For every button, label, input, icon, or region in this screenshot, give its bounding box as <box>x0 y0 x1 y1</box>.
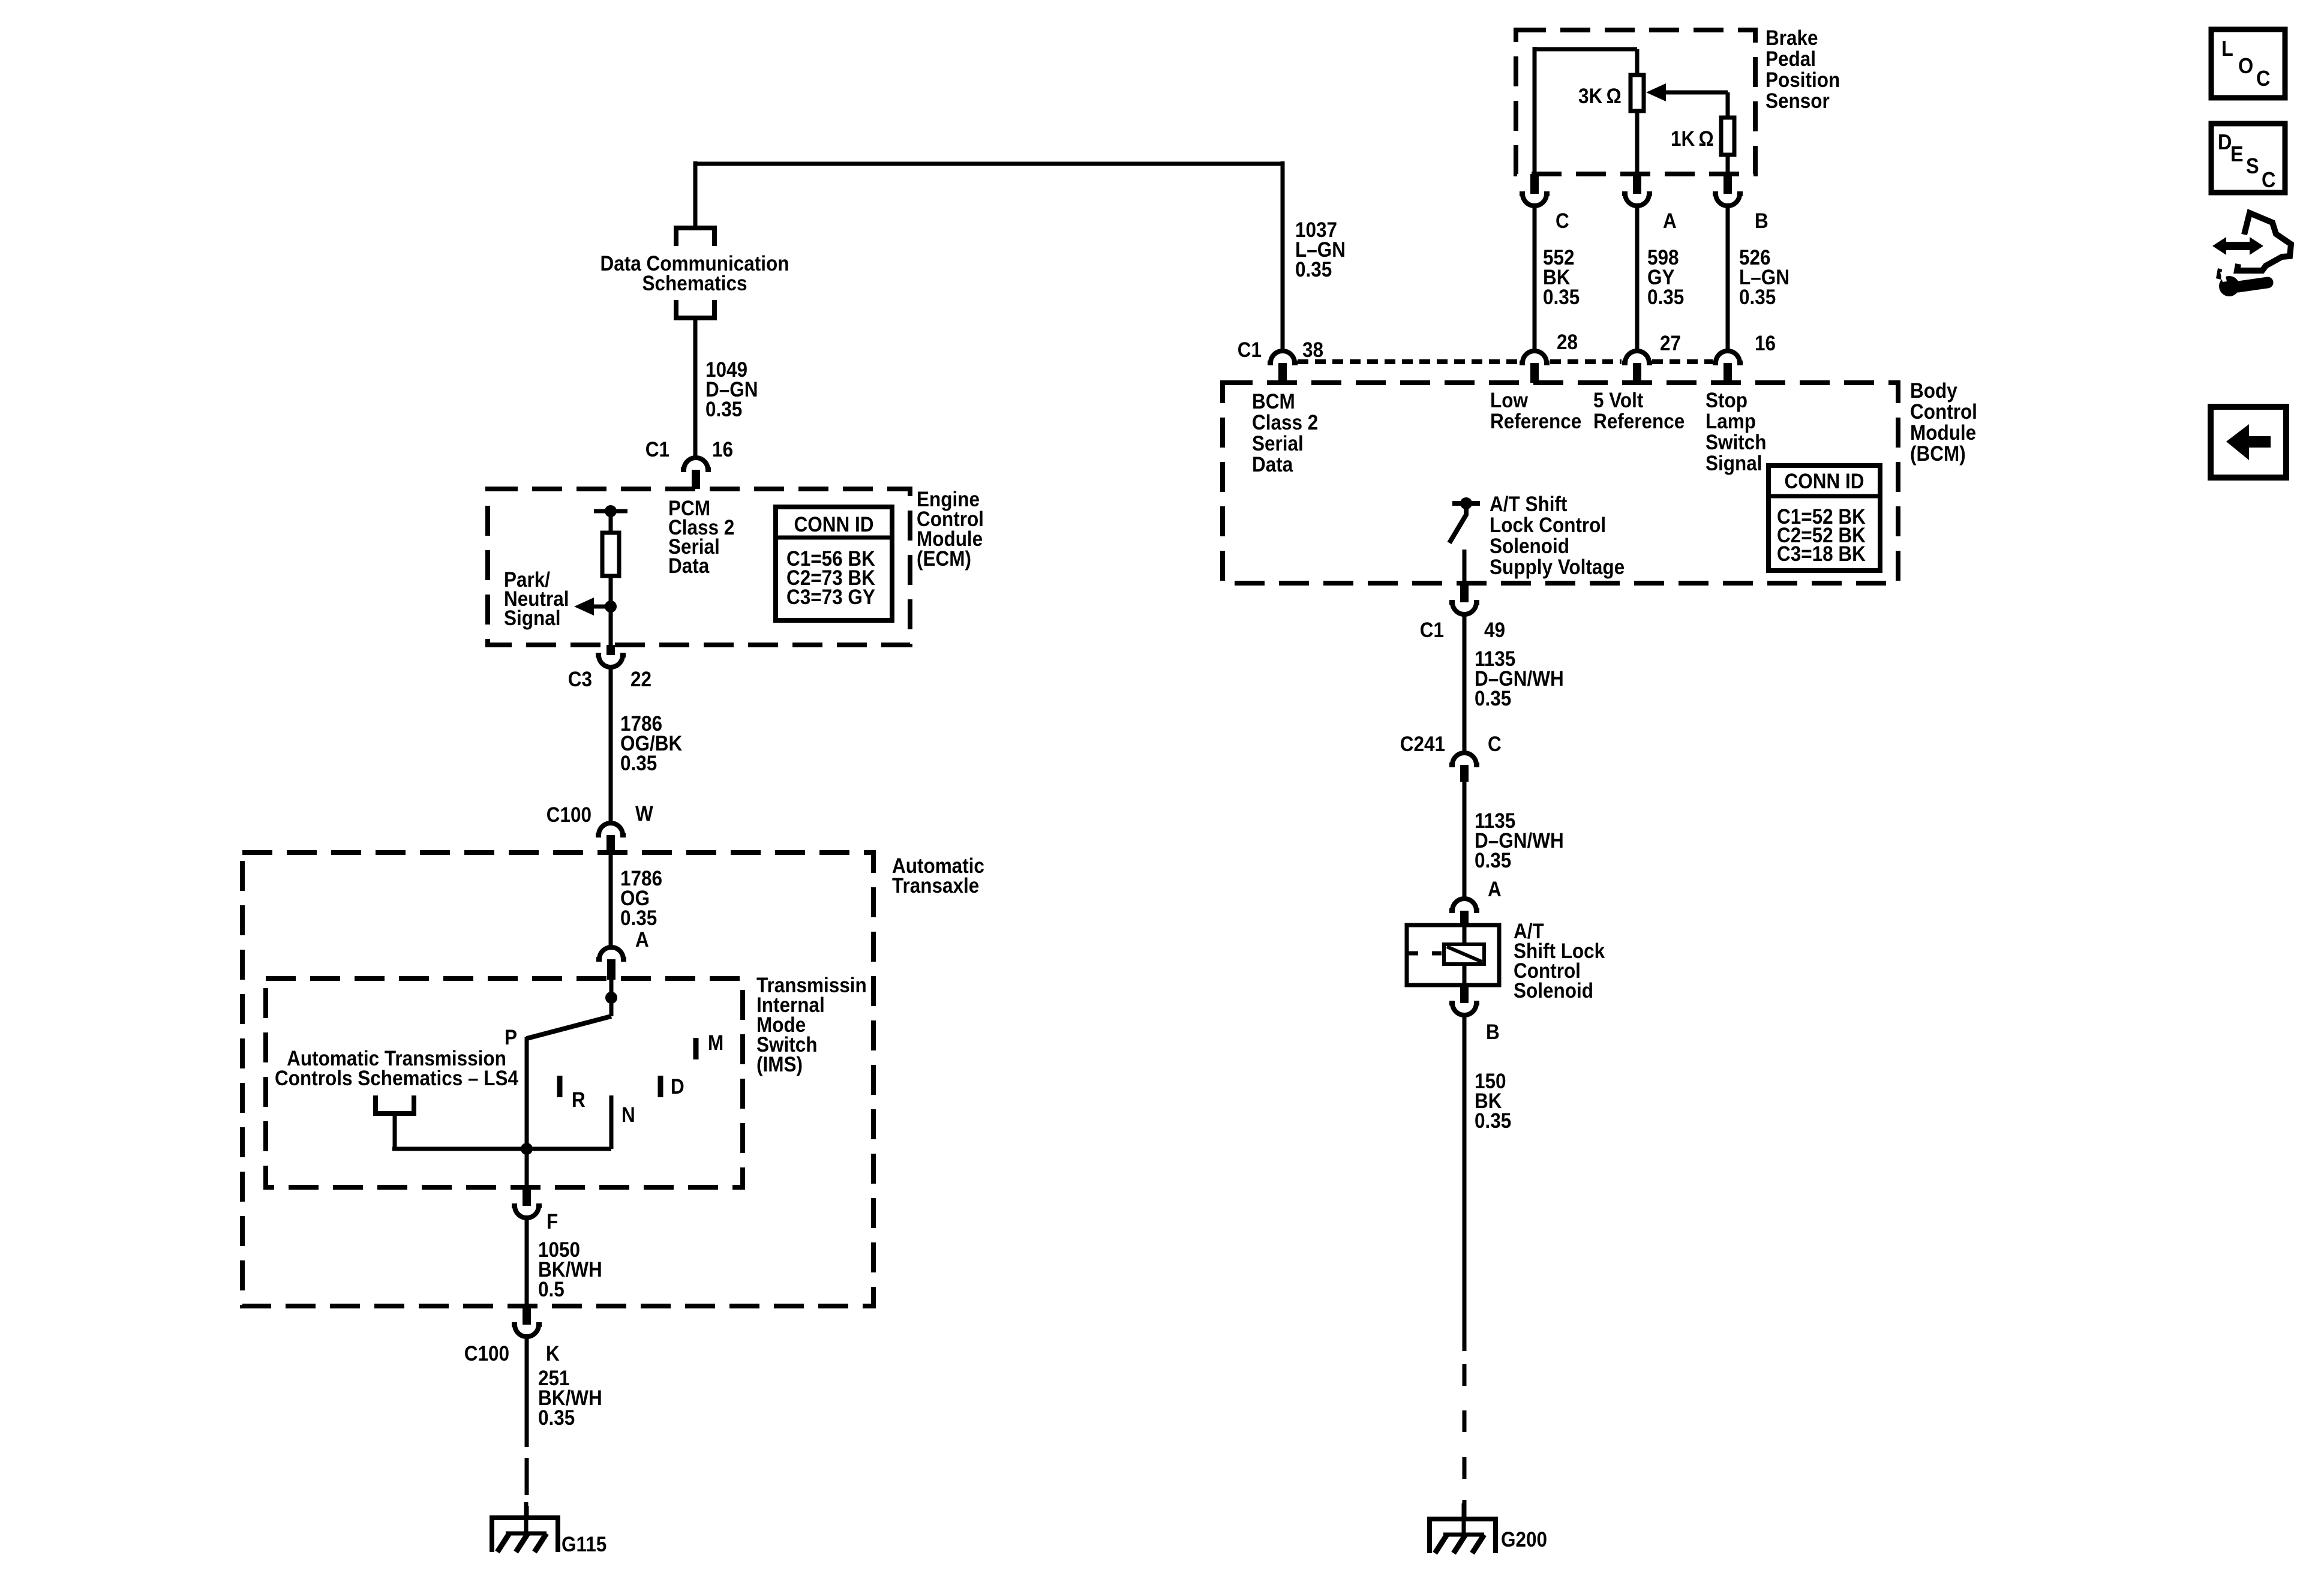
connector C1 pin 49 <box>1460 583 1469 602</box>
svg-text:Body: Body <box>1910 380 1957 403</box>
wire 150 BK <box>1463 1016 1467 1351</box>
svg-text:L: L <box>2221 37 2233 61</box>
wire wiper to 1K resistor <box>1726 92 1730 118</box>
connector C100 pin K <box>523 1306 531 1325</box>
svg-text:N: N <box>621 1104 635 1127</box>
svg-text:28: 28 <box>1557 331 1578 355</box>
wire dashed to ground G200 <box>1463 1364 1467 1386</box>
junction dot at resistor top <box>605 505 617 517</box>
svg-text:C: C <box>2262 168 2275 192</box>
svg-text:5 Volt: 5 Volt <box>1593 389 1643 413</box>
svg-text:(IMS): (IMS) <box>756 1053 803 1077</box>
svg-text:0.35: 0.35 <box>1647 286 1684 310</box>
ground G115 <box>492 1518 558 1552</box>
off-page connector Data Communication Schematics (bottom bracket) <box>676 300 714 318</box>
connector pin A at IMS <box>596 947 626 959</box>
svg-text:C3: C3 <box>568 668 592 692</box>
IMS dashed box Transmission Internal Mode Switch <box>266 978 743 1187</box>
CONN ID table BCM <box>1768 466 1880 571</box>
harness dotted line along BCM top <box>1298 359 1519 364</box>
svg-text:Solenoid: Solenoid <box>1490 535 1569 559</box>
CONN ID table ECM <box>776 507 892 620</box>
connector sensor pin B <box>1724 174 1732 194</box>
off-page connector Data Communication Schematics (top bracket) <box>676 228 714 246</box>
svg-text:A/T Shift: A/T Shift <box>1490 493 1567 517</box>
svg-text:B: B <box>1755 210 1768 233</box>
svg-text:3K Ω: 3K Ω <box>1578 85 1622 109</box>
wire class-2 serial data bus (top horizontal) <box>695 162 1283 166</box>
resistor ECM internal pull-up <box>602 533 619 576</box>
wire 1049 D-GN to ECM <box>693 318 698 457</box>
resistor 3K potentiometer <box>1631 75 1644 111</box>
wire to park/neutral arrow <box>593 605 611 609</box>
svg-text:Signal: Signal <box>1706 452 1762 476</box>
svg-text:0.35: 0.35 <box>1475 688 1511 711</box>
svg-text:Class 2: Class 2 <box>1252 412 1318 435</box>
svg-text:G200: G200 <box>1501 1529 1547 1552</box>
svg-text:38: 38 <box>1302 339 1323 362</box>
coil A/T shift lock solenoid <box>1444 944 1484 964</box>
svg-text:P: P <box>505 1026 517 1050</box>
wire dashed to ground G115 <box>525 1458 529 1495</box>
svg-text:Controls Schematics – LS4: Controls Schematics – LS4 <box>275 1067 518 1091</box>
svg-text:CONN ID: CONN ID <box>794 514 874 537</box>
svg-text:16: 16 <box>1755 332 1776 356</box>
svg-text:C241: C241 <box>1400 733 1445 757</box>
svg-text:0.35: 0.35 <box>1295 259 1332 282</box>
svg-text:0.35: 0.35 <box>620 752 657 776</box>
svg-text:Brake: Brake <box>1765 27 1818 50</box>
svg-text:Module: Module <box>1910 422 1976 445</box>
svg-text:E: E <box>2230 142 2244 166</box>
connector sensor pin A <box>1633 174 1641 194</box>
wire sensor top <box>1535 47 1637 52</box>
svg-text:0.35: 0.35 <box>705 398 742 422</box>
svg-text:BCM: BCM <box>1252 391 1295 414</box>
svg-text:Lamp: Lamp <box>1706 410 1756 434</box>
contact N wire <box>609 1095 614 1149</box>
wire tick to resistor <box>609 511 613 533</box>
arrow park/neutral signal <box>574 598 594 616</box>
svg-text:Signal: Signal <box>504 607 560 631</box>
svg-text:Reference: Reference <box>1490 410 1581 434</box>
svg-text:0.35: 0.35 <box>620 907 657 930</box>
svg-text:Supply Voltage: Supply Voltage <box>1490 556 1625 580</box>
svg-text:B: B <box>1486 1021 1500 1044</box>
svg-text:R: R <box>572 1089 585 1112</box>
icon LOC box <box>2211 29 2285 98</box>
wire sensor left leg (pin C) <box>1533 47 1537 174</box>
switch BCM internal (A/T shift lock driver) <box>1452 501 1480 506</box>
wire out of solenoid <box>1463 964 1467 985</box>
svg-text:0.35: 0.35 <box>1475 849 1511 873</box>
ECM internal supply tick <box>594 509 627 514</box>
wire 1K to pin B <box>1726 155 1730 174</box>
svg-text:C: C <box>1556 210 1569 233</box>
svg-text:49: 49 <box>1484 619 1505 643</box>
icon testing/repair (arrow + wrench) <box>2212 213 2291 296</box>
wire into solenoid <box>1463 927 1467 945</box>
svg-text:0.35: 0.35 <box>1543 286 1580 310</box>
off-page connector to AT controls schematics <box>376 1095 414 1113</box>
svg-text:1K Ω: 1K Ω <box>1671 128 1714 151</box>
svg-text:0.35: 0.35 <box>1475 1110 1511 1133</box>
svg-text:Pedal: Pedal <box>1765 48 1816 71</box>
solenoid A/T Shift Lock Control box <box>1407 925 1499 985</box>
svg-text:0.5: 0.5 <box>538 1278 565 1302</box>
resistor 1K <box>1721 118 1734 155</box>
svg-text:27: 27 <box>1660 332 1681 356</box>
svg-text:C: C <box>2256 67 2270 91</box>
svg-text:C1: C1 <box>1420 619 1444 643</box>
svg-text:S: S <box>2246 154 2259 178</box>
svg-text:Reference: Reference <box>1593 410 1685 434</box>
wire 3K to pin A <box>1635 111 1640 174</box>
svg-text:A: A <box>635 929 649 952</box>
svg-text:C: C <box>1488 733 1502 757</box>
svg-text:(BCM): (BCM) <box>1910 443 1966 466</box>
wire switch to C1 pin 49 <box>1463 550 1467 583</box>
Automatic Transaxle dashed box <box>242 852 873 1306</box>
wire top to 3K resistor <box>1635 49 1640 75</box>
svg-text:C100: C100 <box>547 804 591 827</box>
svg-text:A: A <box>1663 210 1677 233</box>
connector sensor pin C <box>1530 174 1539 194</box>
BCM dashed box Body Control Module <box>1223 383 1898 583</box>
connector pin F <box>523 1187 531 1206</box>
svg-text:F: F <box>547 1211 558 1234</box>
wire drop to BCM C1 pin 38 <box>1281 161 1285 350</box>
svg-text:Sensor: Sensor <box>1765 90 1830 113</box>
svg-text:Schematics: Schematics <box>642 272 747 296</box>
junction dot switch pole <box>605 992 617 1004</box>
wire off-page to bus <box>393 1113 397 1149</box>
svg-text:(ECM): (ECM) <box>917 548 971 571</box>
contact R <box>557 1076 563 1097</box>
svg-text:G115: G115 <box>562 1533 606 1557</box>
wire 552 BK <box>1533 206 1537 350</box>
svg-text:K: K <box>546 1343 560 1366</box>
svg-text:C1: C1 <box>645 439 669 462</box>
svg-text:Solenoid: Solenoid <box>1514 980 1593 1003</box>
svg-text:Data: Data <box>1252 454 1293 477</box>
junction dot park/neutral tap <box>605 601 617 613</box>
connector C3 pin 22 <box>606 645 615 655</box>
ground G200 <box>1430 1519 1496 1553</box>
icon back-arrow box <box>2211 407 2286 478</box>
svg-text:C100: C100 <box>464 1343 509 1366</box>
svg-text:D: D <box>671 1076 684 1099</box>
svg-text:0.35: 0.35 <box>538 1407 575 1430</box>
svg-text:Lock Control: Lock Control <box>1490 514 1606 538</box>
contact D <box>658 1076 663 1097</box>
svg-text:Position: Position <box>1765 69 1840 92</box>
wire IMS bus <box>392 1147 611 1151</box>
svg-text:C1: C1 <box>1238 339 1262 362</box>
wire 1135 D-GN/WH upper <box>1463 615 1467 752</box>
Brake Pedal Position Sensor dashed box <box>1516 30 1755 174</box>
svg-text:C3=73 GY: C3=73 GY <box>786 586 875 610</box>
wire 1786 OG/BK <box>609 668 613 822</box>
dashed link inside solenoid box <box>1409 951 1443 956</box>
connector solenoid pin B <box>1460 985 1469 1003</box>
svg-text:16: 16 <box>712 439 733 462</box>
wiper arrow <box>1646 83 1666 101</box>
wire 1050 BK/WH <box>525 1218 529 1306</box>
wire 1135 D-GN/WH lower <box>1463 782 1467 899</box>
svg-text:Serial: Serial <box>1252 433 1304 456</box>
svg-text:Data: Data <box>668 555 710 578</box>
icon DESC box <box>2211 124 2285 193</box>
wire 526 L-GN <box>1726 206 1730 350</box>
svg-text:0.35: 0.35 <box>1739 286 1776 310</box>
contact M <box>693 1038 699 1059</box>
wire 598 GY <box>1635 206 1640 350</box>
wire bus to pin F <box>525 1149 529 1187</box>
svg-text:CONN ID: CONN ID <box>1785 470 1864 494</box>
svg-text:O: O <box>2238 54 2253 78</box>
svg-text:M: M <box>708 1032 723 1055</box>
svg-text:A: A <box>1488 878 1502 902</box>
svg-text:D: D <box>2218 130 2232 154</box>
switch blade IMS (pole to P) <box>527 1016 611 1038</box>
ECM dashed box Engine Control Module <box>488 489 910 645</box>
svg-text:C3=18 BK: C3=18 BK <box>1777 543 1866 566</box>
wire 1786 OG <box>609 854 613 947</box>
svg-text:22: 22 <box>630 668 651 692</box>
svg-text:Low: Low <box>1490 389 1528 413</box>
wire resistor to C3 pin 22 <box>609 576 613 647</box>
svg-text:Stop: Stop <box>1706 389 1747 413</box>
wire pin A to switch pole <box>609 980 614 1016</box>
svg-text:Transaxle: Transaxle <box>892 875 979 898</box>
wire P contact to bus <box>525 1037 529 1149</box>
svg-text:Control: Control <box>1910 401 1977 424</box>
wire drop to off-page connector <box>693 161 698 228</box>
junction dot bus <box>521 1143 533 1155</box>
svg-text:Switch: Switch <box>1706 431 1766 455</box>
wire 251 BK/WH <box>525 1337 529 1447</box>
svg-text:W: W <box>635 803 653 826</box>
